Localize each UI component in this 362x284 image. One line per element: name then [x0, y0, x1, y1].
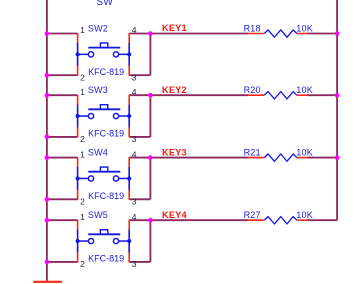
switch SW3 KFC-819	[76, 95, 132, 138]
wire pin2 feed SW2	[47, 74, 78, 76]
resistor R27	[248, 217, 308, 224]
svg-text:4: 4	[132, 25, 137, 35]
switch SW2 KFC-819	[76, 33, 132, 76]
svg-text:2: 2	[80, 73, 85, 83]
junction rail-left pin2	[45, 135, 50, 140]
svg-text:10K: 10K	[296, 148, 313, 158]
svg-text:4: 4	[132, 212, 137, 222]
junction KEY4 riser	[148, 218, 153, 223]
wire resistor R20 to right rail	[307, 94, 337, 96]
svg-text:4: 4	[132, 149, 137, 159]
svg-text:KFC-819: KFC-819	[88, 129, 124, 139]
wire pin1 feed SW3	[47, 94, 78, 96]
svg-text:2: 2	[80, 134, 85, 144]
svg-text:3: 3	[132, 259, 137, 269]
svg-text:1: 1	[80, 212, 85, 222]
svg-text:SW2: SW2	[88, 24, 108, 34]
wire pin3 out SW4	[129, 198, 150, 200]
svg-text:KEY1: KEY1	[162, 23, 187, 33]
wire pin2 feed SW4	[47, 198, 78, 200]
wire pin3 out SW2	[129, 74, 150, 76]
junction KEY2 riser	[148, 93, 153, 98]
svg-text:KFC-819: KFC-819	[88, 254, 124, 264]
svg-text:1: 1	[80, 25, 85, 35]
junction rail-left pin1	[45, 218, 50, 223]
svg-text:3: 3	[132, 134, 137, 144]
svg-text:SW4: SW4	[88, 148, 108, 158]
svg-text:2: 2	[80, 259, 85, 269]
junction rail-left pin1	[45, 31, 50, 36]
junction rail-left pin2	[45, 73, 50, 78]
wire riser joining pin3 to pin4 net	[149, 95, 151, 137]
resistor R20	[248, 92, 308, 99]
wire pin4 out SW3	[129, 94, 150, 96]
wire resistor R27 to right rail	[307, 219, 337, 221]
wire net KEY1 to resistor	[150, 33, 248, 35]
resistor R18	[248, 30, 308, 37]
wire right vertical rail	[336, 0, 338, 220]
junction rail-left pin1	[45, 155, 50, 160]
wire left vertical rail	[46, 0, 48, 282]
svg-text:10K: 10K	[296, 210, 313, 220]
junction KEY1 riser	[148, 31, 153, 36]
wire pin1 feed SW5	[47, 219, 78, 221]
svg-text:SW: SW	[96, 0, 113, 8]
switch SW4 KFC-819	[76, 157, 132, 200]
wire net KEY2 to resistor	[150, 94, 248, 96]
junction right rail	[335, 31, 340, 36]
svg-text:R21: R21	[244, 148, 261, 158]
wire riser joining pin3 to pin4 net	[149, 220, 151, 262]
junction right rail	[335, 93, 340, 98]
svg-text:2: 2	[80, 197, 85, 207]
junction KEY3 riser	[148, 155, 153, 160]
wire net KEY4 to resistor	[150, 219, 248, 221]
switch SW5 KFC-819	[76, 220, 132, 263]
svg-text:R20: R20	[244, 85, 261, 95]
svg-text:KFC-819: KFC-819	[88, 67, 124, 77]
wire pin4 out SW4	[129, 157, 150, 159]
svg-text:KEY4: KEY4	[162, 210, 187, 220]
wire riser joining pin3 to pin4 net	[149, 158, 151, 200]
svg-text:10K: 10K	[296, 85, 313, 95]
svg-text:KEY3: KEY3	[162, 147, 187, 157]
wire pin4 out SW5	[129, 219, 150, 221]
svg-text:KFC-819: KFC-819	[88, 191, 124, 201]
svg-text:4: 4	[132, 87, 137, 97]
wire pin1 feed SW2	[47, 33, 78, 35]
wire pin4 out SW2	[129, 33, 150, 35]
wire resistor R21 to right rail	[307, 157, 337, 159]
svg-text:SW5: SW5	[88, 210, 108, 220]
svg-text:SW3: SW3	[88, 85, 108, 95]
wire pin2 feed SW5	[47, 261, 78, 263]
svg-text:R27: R27	[244, 210, 261, 220]
svg-text:1: 1	[80, 87, 85, 97]
wire pin1 feed SW4	[47, 157, 78, 159]
wire pin3 out SW3	[129, 136, 150, 138]
svg-text:R18: R18	[244, 24, 261, 34]
junction right rail	[335, 155, 340, 160]
wire pin2 feed SW3	[47, 136, 78, 138]
svg-text:3: 3	[132, 73, 137, 83]
svg-text:KEY2: KEY2	[162, 85, 187, 95]
svg-text:10K: 10K	[296, 24, 313, 34]
wire riser joining pin3 to pin4 net	[149, 34, 151, 76]
resistor R21	[248, 154, 308, 161]
junction rail-left pin1	[45, 93, 50, 98]
svg-text:3: 3	[132, 197, 137, 207]
wire resistor R18 to right rail	[307, 33, 337, 35]
power bar (red) at bottom of left rail	[33, 281, 62, 283]
wire pin3 out SW5	[129, 261, 150, 263]
junction rail-left pin2	[45, 260, 50, 265]
junction rail-left pin2	[45, 197, 50, 202]
svg-text:1: 1	[80, 149, 85, 159]
wire net KEY3 to resistor	[150, 157, 248, 159]
